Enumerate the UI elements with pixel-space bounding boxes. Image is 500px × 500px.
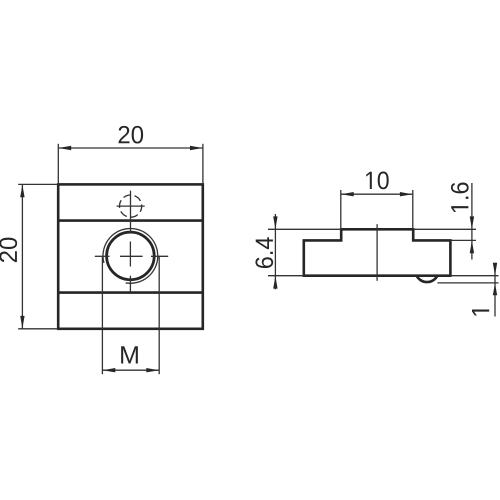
dimension 20 top: text (119, 126, 144, 144)
nut profile outline (side view T-shape) (304, 229, 451, 275)
dimension M: extension lines (101, 256, 103, 374)
dimension 1: text (rotated) (472, 309, 489, 315)
hole centerline vertical (129, 191, 131, 292)
dimension 1: extension lines (450, 275, 498, 277)
dimension 20 top: extension lines (57, 144, 59, 184)
dimension 20 left: extension lines (18, 183, 58, 185)
dimension 20 top: dimension line with arrows (58, 147, 203, 149)
dimension M: dimension line with arrows (102, 369, 159, 371)
dimension M: text (121, 346, 138, 363)
spring ball hole (hidden dashed circle) (120, 195, 142, 217)
dimension 10: text (366, 172, 388, 190)
dimension 1.6: extension lines (413, 228, 476, 230)
tongue edge line upper (front view) (57, 219, 204, 222)
dimension 1: dimension line with outside arrows (494, 263, 496, 317)
spring ball hole cross horizontal (117, 205, 145, 207)
dimension 20 left: dimension line with arrows (21, 184, 23, 328)
dimension 1.6: dimension line with outside arrows (471, 183, 473, 260)
threaded hole M, major diameter thin arc (103, 228, 158, 283)
dimension 10: extension lines (340, 190, 342, 229)
dimension 6.4: dimension line with outside arrows (274, 214, 276, 289)
tongue edge line lower (front view) (57, 291, 204, 294)
dimension 1.6: text (rotated) (451, 183, 469, 212)
threaded hole M, minor diameter circle (107, 232, 155, 280)
dimension 10: dimension line with arrows (341, 193, 413, 195)
spring ball arc (side view) (417, 276, 438, 282)
dimension 6.4: extension lines (268, 228, 341, 230)
dimension 20 left: text (rotated) (0, 238, 17, 263)
hole centerline horizontal (95, 255, 168, 257)
nut body outline (front view square) (58, 184, 203, 328)
dimension 6.4: text (rotated) (255, 237, 273, 268)
side view centerline (376, 224, 378, 281)
